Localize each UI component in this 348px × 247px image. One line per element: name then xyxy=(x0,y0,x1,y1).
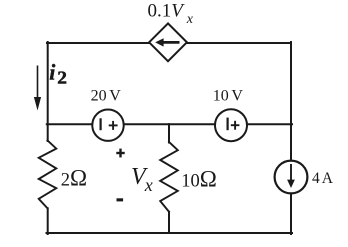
svg-text:10V: 10V xyxy=(213,88,244,105)
svg-text:0.1Vx: 0.1Vx xyxy=(148,1,194,28)
svg-text:20V: 20V xyxy=(91,88,122,105)
svg-text:4A: 4A xyxy=(312,170,334,187)
svg-text:2: 2 xyxy=(57,68,67,88)
svg-text:i: i xyxy=(49,60,56,85)
svg-text:x: x xyxy=(144,175,153,195)
svg-text:10Ω: 10Ω xyxy=(181,166,217,191)
svg-text:2Ω: 2Ω xyxy=(61,165,87,190)
